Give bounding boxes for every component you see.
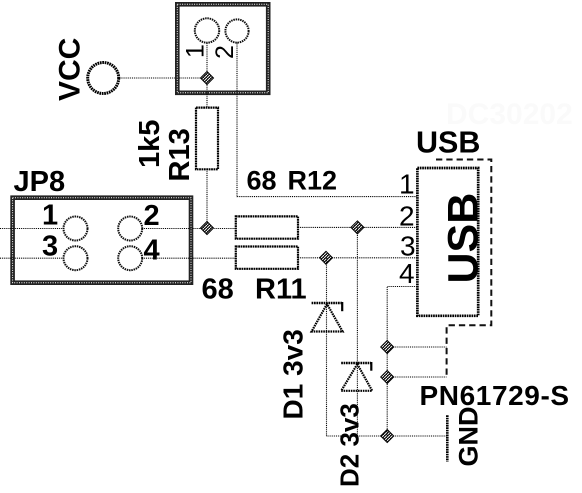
- JP8 pad circle pin 4: [118, 246, 142, 270]
- junction on pin3 net (D1 tap): [320, 251, 333, 264]
- svg-text:PN61729-S: PN61729-S: [420, 380, 570, 411]
- resistor R11 body: [236, 247, 298, 269]
- svg-text:4: 4: [144, 235, 160, 267]
- power symbol VCC circle: [88, 63, 119, 94]
- svg-text:4: 4: [399, 258, 415, 289]
- wire JP8 pin4 to R11: [142, 257, 236, 259]
- 2-pin header pad circle pin 2: [225, 19, 248, 42]
- wire R11 right to USB pin 3: [298, 257, 417, 259]
- diode D1 cathode bar: [312, 302, 342, 304]
- wire into JP8 pin3 from left edge: [0, 257, 64, 259]
- diode D2 cathode bar: [341, 362, 371, 364]
- junction gnd rail / pin4 net: [381, 430, 394, 443]
- junction at R13 bottom / R12 left: [201, 222, 214, 235]
- wire shield stub upper: [387, 346, 446, 348]
- junction shield stub lower: [381, 371, 394, 384]
- ground symbol bar: [446, 415, 449, 461]
- wire R13 bottom to node: [206, 169, 208, 228]
- 2-pin header pad circle pin 1: [195, 18, 219, 42]
- JP8 pad circle pin 3: [64, 246, 88, 270]
- svg-text:2: 2: [399, 201, 415, 232]
- resistor R12 body: [236, 216, 298, 238]
- svg-text:68: 68: [247, 166, 277, 196]
- diode D2 triangle: [341, 364, 372, 391]
- svg-text:68: 68: [202, 274, 234, 306]
- wire pin2 of header down and right to USB pin 1: [237, 43, 417, 197]
- svg-text:VCC: VCC: [54, 38, 87, 101]
- wire R12 right to USB pin 2: [298, 226, 417, 228]
- svg-text:JP8: JP8: [14, 166, 66, 198]
- svg-text:3: 3: [400, 231, 416, 262]
- gnd rail wire from D1/D2 to GND symbol: [327, 435, 448, 437]
- diode D1 triangle: [312, 304, 343, 332]
- svg-text:R12: R12: [288, 166, 338, 196]
- 2-pin header (top connector) box: [177, 4, 268, 93]
- svg-text:D1 3v3: D1 3v3: [278, 329, 309, 419]
- wire D1 vertical (pin3 net down to gnd rail): [326, 258, 328, 436]
- JP8 pad circle pin 2: [118, 217, 142, 241]
- svg-text:1: 1: [182, 44, 210, 58]
- junction on pin2 net (D2 tap): [351, 221, 364, 234]
- svg-text:1: 1: [399, 169, 415, 200]
- junction VCC node: [201, 72, 214, 85]
- svg-text:1: 1: [42, 200, 58, 232]
- svg-text:R13: R13: [164, 128, 196, 181]
- wire VCC to top header: [119, 77, 202, 79]
- junction shield stub upper: [381, 341, 394, 354]
- connector JP8 box: [13, 198, 191, 283]
- svg-text:USB: USB: [416, 126, 480, 160]
- resistor R13 body: [196, 108, 218, 170]
- wire D2 vertical (pin2 net down to gnd rail): [356, 227, 358, 436]
- wire JP8 pin2 to R12: [142, 228, 236, 230]
- JP8 pad circle pin 1: [64, 217, 88, 241]
- svg-text:2: 2: [144, 200, 160, 232]
- wire USB pin4 down to gnd rail: [387, 287, 417, 437]
- USB connector solid box: [417, 168, 478, 316]
- wire into JP8 pin1 from left edge: [0, 228, 64, 230]
- wire shield stub lower: [387, 376, 446, 378]
- svg-text:2: 2: [211, 45, 239, 59]
- USB connector shield dashed outline: [436, 160, 491, 378]
- svg-text:R11: R11: [255, 274, 307, 306]
- svg-text:USB: USB: [440, 193, 488, 284]
- wire pin1 of header down to R13: [206, 43, 208, 108]
- svg-text:D2 3v3: D2 3v3: [335, 403, 365, 487]
- svg-text:1k5: 1k5: [134, 120, 166, 168]
- svg-text:GND: GND: [454, 407, 484, 467]
